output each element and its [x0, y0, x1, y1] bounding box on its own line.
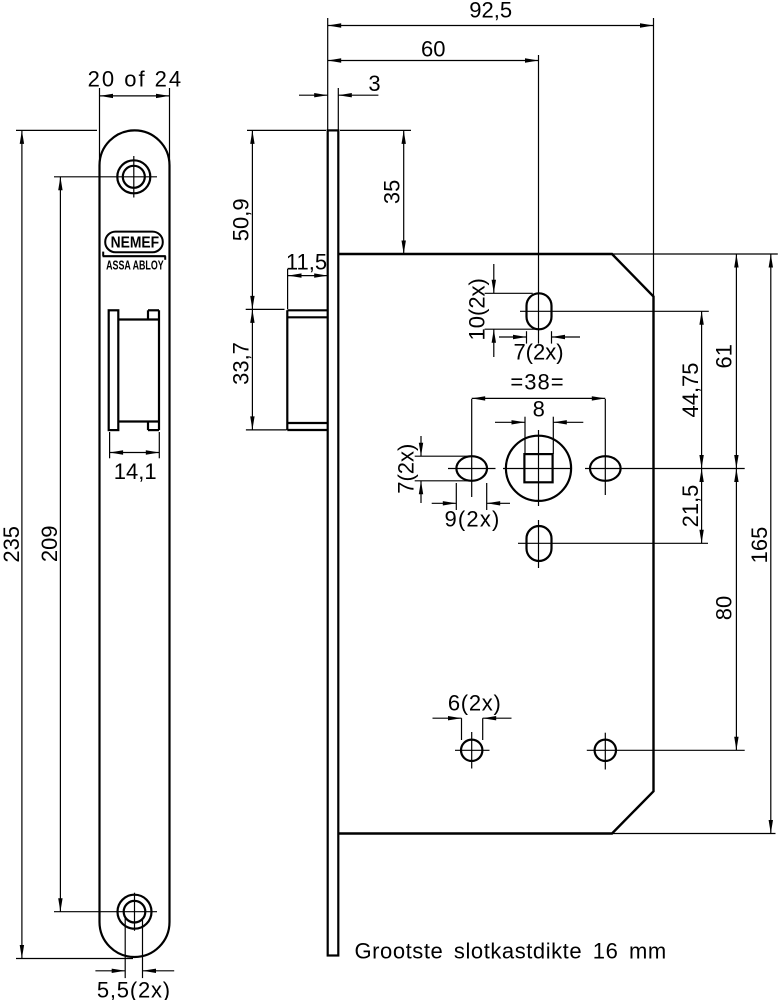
lower oval horizontal centerline: [518, 542, 708, 544]
svg-text:NEMEF: NEMEF: [111, 235, 160, 252]
extension line case top right: [612, 253, 778, 255]
svg-text:11,5: 11,5: [286, 249, 327, 274]
dimension 61: [735, 254, 737, 469]
dimension 7(2x) top oval: [526, 331, 528, 343]
dimension 11,5: [287, 269, 289, 309]
dimension 20 of 24: [99, 88, 101, 168]
dimension =38=: [472, 397, 606, 399]
svg-text:8: 8: [533, 397, 545, 422]
dimension 33,7: [246, 429, 287, 431]
svg-text:21,5: 21,5: [678, 485, 703, 528]
vertical centerline spindle column upper: [538, 55, 540, 344]
dimension 165: [770, 254, 772, 834]
svg-text:60: 60: [421, 37, 445, 62]
lock case outline: [338, 254, 653, 834]
NEMEF logo stadium border: [105, 232, 163, 253]
bottom screw hole centerlines: [54, 911, 157, 913]
dimension 8: [524, 417, 526, 454]
dimension 9(2x): [455, 483, 457, 510]
dimension 21,5: [701, 469, 703, 544]
bottom screw hole inner circle: [124, 901, 146, 923]
dimension 3: [299, 94, 328, 96]
svg-text:61: 61: [711, 344, 736, 368]
svg-text:Grootste slotkastdikte 16 mm: Grootste slotkastdikte 16 mm: [355, 939, 667, 964]
faceplate outline: [100, 130, 170, 957]
dimension 7(2x) side holes: [415, 455, 469, 457]
extension line plate right: [337, 88, 339, 130]
svg-text:6(2x): 6(2x): [448, 691, 502, 716]
dimension 209: [59, 177, 61, 912]
top oval hole: [527, 293, 552, 329]
bottom left circle vertical centerline: [471, 732, 473, 769]
svg-text:5,5(2x): 5,5(2x): [97, 978, 171, 1000]
svg-text:165: 165: [747, 527, 772, 564]
bottom left screw circle: [461, 740, 482, 761]
bottom right circle vertical centerline: [604, 733, 606, 770]
svg-text:10(2x): 10(2x): [465, 278, 490, 340]
dimension 80: [735, 469, 737, 751]
ASSA ABLOY rule: [103, 255, 166, 257]
horizontal centerline hole row: [448, 468, 496, 470]
vertical centerline lower oval: [538, 520, 540, 568]
svg-text:7(2x): 7(2x): [394, 444, 419, 494]
dimension 10(2x): [485, 292, 533, 294]
latch cutout main box lines: [118, 318, 159, 320]
right hole vertical centerline: [604, 399, 606, 495]
svg-text:44,75: 44,75: [678, 362, 703, 417]
left hole vertical centerline: [471, 399, 473, 497]
top screw hole outer circle: [117, 160, 150, 193]
dimension 6(2x): [461, 718, 463, 740]
latch cutout bottom tab: [147, 422, 149, 431]
lower oval hole: [527, 526, 552, 561]
svg-text:20 of 24: 20 of 24: [88, 67, 184, 92]
svg-text:80: 80: [711, 596, 736, 620]
dimension 5,5(2x): [124, 918, 126, 978]
dimension 50,9: [247, 129, 326, 131]
dimension 235: [16, 129, 97, 131]
svg-text:235: 235: [0, 526, 24, 563]
top oval horizontal centerline: [520, 310, 709, 312]
dimension 14,1: [109, 432, 111, 458]
spindle square: [524, 454, 552, 482]
bottom screw hole outer circle: [118, 895, 152, 929]
svg-text:92,5: 92,5: [469, 0, 512, 23]
bottom circles horizontal centerline: [455, 749, 490, 751]
svg-text:7(2x): 7(2x): [513, 340, 563, 365]
svg-text:33,7: 33,7: [228, 342, 253, 385]
top screw hole centerlines: [54, 176, 157, 178]
svg-text:50,9: 50,9: [228, 198, 253, 241]
extension line case bottom right: [612, 833, 776, 835]
extension line case right top: [653, 18, 655, 297]
latch cutout top tab: [147, 310, 149, 319]
svg-text:209: 209: [37, 525, 62, 562]
dimension 35: [340, 129, 411, 131]
dimension 92,5: [328, 25, 654, 27]
faceplate side plate: [328, 130, 339, 955]
right follower hole: [590, 456, 621, 481]
dimension 44,75: [701, 311, 703, 468]
svg-text:9(2x): 9(2x): [444, 506, 500, 531]
svg-text:3: 3: [368, 71, 380, 96]
latch bolt side box: [286, 310, 288, 430]
vertical centerline spindle column lower: [538, 430, 540, 506]
svg-text:ASSA ABLOY: ASSA ABLOY: [106, 257, 164, 272]
left follower hole: [456, 456, 487, 481]
bottom right screw circle: [595, 740, 616, 761]
extension line faceplate left: [327, 18, 329, 130]
svg-text:14,1: 14,1: [114, 459, 157, 484]
svg-text:=38=: =38=: [510, 370, 564, 395]
dimension 60: [328, 60, 539, 62]
svg-text:35: 35: [379, 180, 404, 204]
top screw hole inner circle: [123, 166, 145, 188]
latch cutout left bar: [109, 310, 119, 430]
spindle circle: [506, 436, 571, 501]
